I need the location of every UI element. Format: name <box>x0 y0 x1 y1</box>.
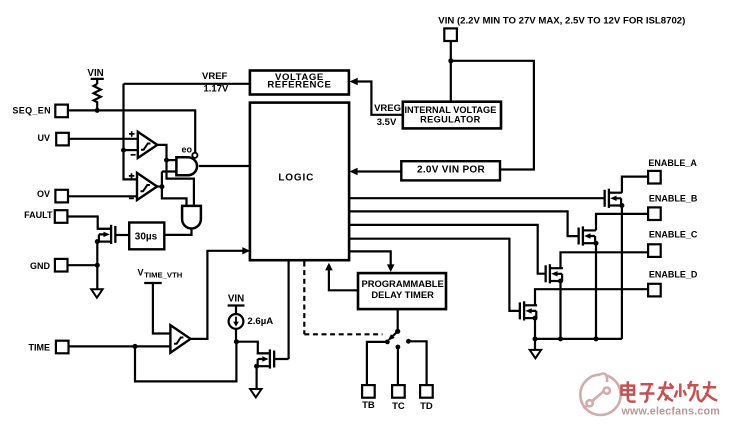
svg-text:REGULATOR: REGULATOR <box>420 115 481 125</box>
svg-text:TD: TD <box>420 401 433 412</box>
svg-text:2.6µA: 2.6µA <box>247 316 273 327</box>
svg-text:SEQ_EN: SEQ_EN <box>12 106 51 116</box>
svg-text:TB: TB <box>362 400 375 411</box>
svg-text:PROGRAMMABLE: PROGRAMMABLE <box>361 278 443 289</box>
svg-text:30µs: 30µs <box>135 232 158 243</box>
svg-text:FAULT: FAULT <box>24 210 53 220</box>
svg-text:UV: UV <box>37 133 50 143</box>
svg-text:VIN: VIN <box>228 293 244 304</box>
svg-text:DELAY TIMER: DELAY TIMER <box>371 289 434 300</box>
svg-text:eo: eo <box>181 145 192 155</box>
svg-text:www.elecfans.com: www.elecfans.com <box>621 406 720 418</box>
svg-text:ENABLE_B: ENABLE_B <box>649 193 698 203</box>
svg-text:TC: TC <box>392 401 405 412</box>
svg-text:ENABLE_A: ENABLE_A <box>648 158 697 168</box>
svg-text:VIN: VIN <box>87 68 103 79</box>
svg-text:VIN (2.2V MIN TO 27V MAX, 2.5V: VIN (2.2V MIN TO 27V MAX, 2.5V TO 12V FO… <box>438 15 685 26</box>
svg-text:2.0V VIN POR: 2.0V VIN POR <box>417 165 486 176</box>
svg-text:REFERENCE: REFERENCE <box>267 79 331 90</box>
svg-text:LOGIC: LOGIC <box>278 172 314 183</box>
svg-text:ENABLE_D: ENABLE_D <box>649 270 698 280</box>
svg-text:TIME: TIME <box>29 342 51 352</box>
svg-text:1.17V: 1.17V <box>204 84 229 95</box>
svg-text:VREF: VREF <box>202 71 228 82</box>
svg-text:OV: OV <box>37 189 50 199</box>
svg-text:TIME_VTH: TIME_VTH <box>144 271 182 280</box>
svg-text:VREG: VREG <box>374 103 401 114</box>
svg-text:V: V <box>138 267 144 277</box>
svg-text:3.5V: 3.5V <box>377 117 397 128</box>
svg-text:GND: GND <box>30 261 51 271</box>
svg-text:ENABLE_C: ENABLE_C <box>649 229 698 239</box>
